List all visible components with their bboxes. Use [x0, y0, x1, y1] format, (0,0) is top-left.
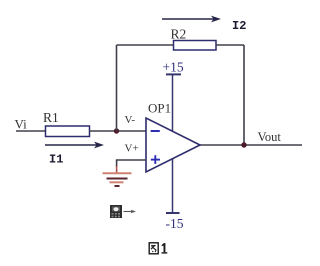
svg-text:-15: -15 [166, 216, 184, 231]
caption text 1 (drawn) [162, 243, 168, 254]
svg-text:I2: I2 [232, 19, 246, 33]
wire non-inverting input [117, 160, 146, 167]
resistor R2 [174, 41, 217, 51]
wire negative supply [172, 159, 174, 213]
inline icon arrow [124, 210, 137, 214]
wire output [200, 144, 302, 146]
op-amp U1 triangle [146, 118, 200, 172]
svg-text:R1: R1 [43, 110, 59, 125]
wire R2 to right vertical [216, 44, 244, 46]
caption glyph 图 (drawn) [149, 243, 158, 254]
wire R1 to inverting input [90, 130, 147, 132]
wire positive supply [172, 75, 174, 131]
wire input from Vi to R1 [16, 130, 46, 132]
negative supply rail bar [166, 212, 180, 214]
inline picture icon [110, 205, 122, 218]
op-amp minus sign [151, 130, 160, 132]
svg-text:+15: +15 [163, 60, 184, 75]
node junction dot at inverting input [114, 128, 119, 133]
current arrow I2 [162, 16, 221, 23]
svg-text:Vout: Vout [258, 130, 282, 144]
op-amp plus sign [151, 155, 160, 164]
svg-text:V+: V+ [125, 143, 139, 155]
wire feedback left vertical [116, 45, 118, 131]
wire feedback right vertical [243, 45, 245, 145]
svg-text:OP1: OP1 [148, 101, 171, 116]
svg-text:V-: V- [125, 114, 136, 126]
node junction dot at output [241, 142, 246, 147]
resistor R1 [46, 126, 90, 137]
positive supply rail bar [166, 73, 181, 75]
ground symbol [103, 173, 132, 186]
current arrow I1 [45, 142, 104, 149]
wire feedback top to R2 [117, 44, 175, 46]
ground stem [116, 166, 118, 173]
svg-text:Vi: Vi [15, 117, 28, 132]
svg-text:R2: R2 [171, 27, 187, 42]
svg-text:I1: I1 [49, 153, 63, 167]
